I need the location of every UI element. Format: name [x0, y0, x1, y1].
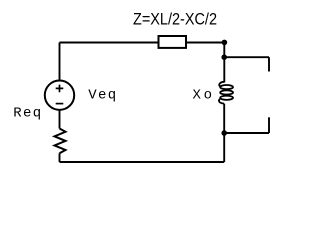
plus sign inside source: [56, 85, 64, 93]
svg-text:Z=XL/2-XC/2: Z=XL/2-XC/2: [133, 10, 217, 28]
wire bottom horizontal rail: [60, 161, 225, 163]
svg-text:Veq: Veq: [88, 88, 116, 104]
node junction dot upper tap: [221, 54, 227, 60]
wire right vertical lower: [223, 104, 225, 162]
wire right vertical upper: [223, 43, 225, 83]
wire upper output stub down (open terminal): [268, 57, 270, 71]
voltage source circle U Veq: [45, 81, 74, 110]
wire upper output branch: [224, 56, 269, 58]
wire left vertical (top corner to source): [59, 43, 61, 81]
wire resistor bottom to bottom rail: [59, 153, 61, 162]
node junction dot top corner: [222, 40, 228, 46]
wire source bottom to resistor: [59, 110, 61, 129]
node junction dot lower tap: [221, 130, 227, 136]
svg-text:Req: Req: [13, 105, 41, 121]
svg-text:Xo: Xo: [193, 88, 213, 104]
wire lower output branch: [224, 132, 269, 134]
inductor Xo coil: [219, 82, 233, 104]
wire top horizontal left segment: [60, 42, 159, 44]
minus sign inside source: [56, 103, 64, 105]
wire top horizontal right segment: [186, 42, 224, 44]
resistor Req zigzag: [55, 129, 66, 154]
impedance box Z: [159, 36, 187, 48]
wire lower output stub up (open terminal): [268, 117, 270, 133]
